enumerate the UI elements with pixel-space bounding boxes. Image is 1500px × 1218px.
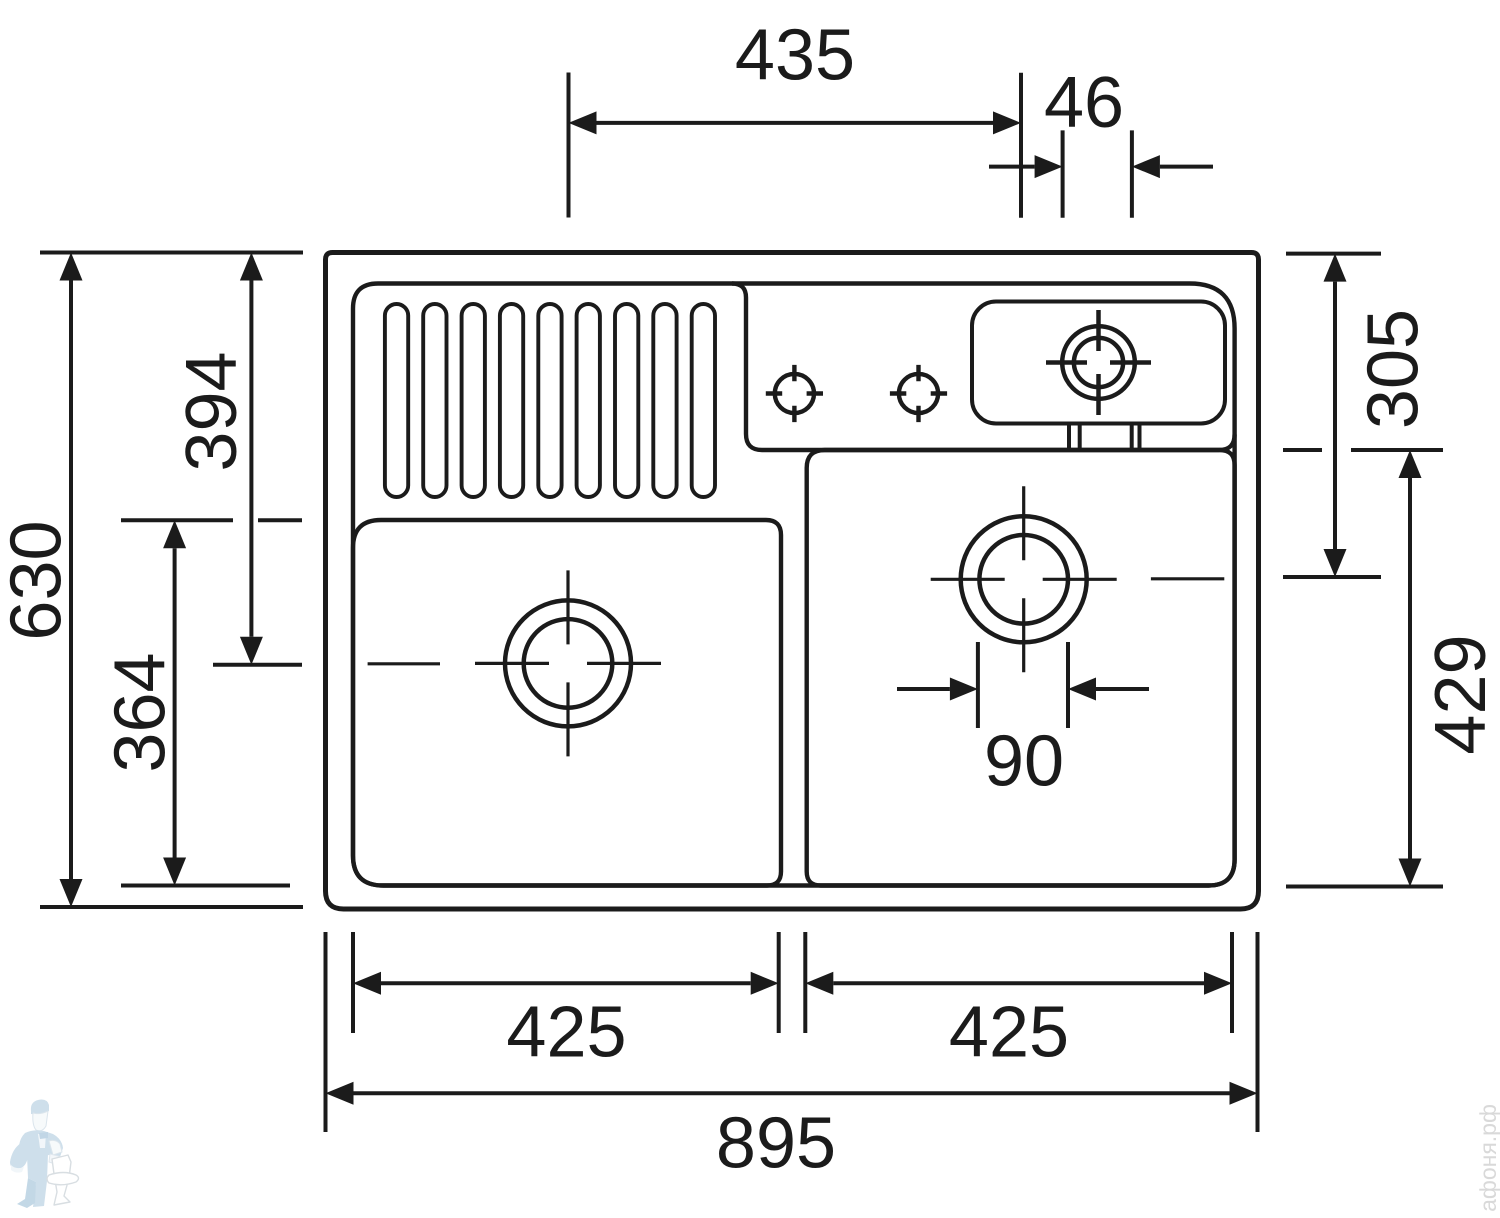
drainboard slot 6 — [577, 304, 600, 497]
dim 364: top extension tick (broken by 394 line) — [121, 518, 302, 522]
right bowl centerline dash — [1151, 577, 1224, 580]
left bowl drain crosshair — [475, 570, 661, 756]
dim 429: arrow line — [1408, 478, 1412, 859]
dim 435: right extension tick — [1019, 73, 1023, 218]
dim 305: top extension tick — [1286, 252, 1381, 256]
drainboard slot 4 — [500, 304, 523, 497]
dim 630: top extension tick — [40, 251, 303, 255]
right bowl drain crosshair — [931, 486, 1117, 672]
svg-text:394: 394 — [172, 351, 252, 471]
dim 425 right: arrow line — [833, 981, 1204, 985]
drainboard slot 5 — [538, 304, 561, 497]
dim 630: bottom extension tick — [40, 905, 303, 909]
dim 630: arrow line — [69, 281, 73, 880]
svg-text:46: 46 — [1044, 63, 1124, 143]
faucet leg lines — [1069, 425, 1140, 448]
drainboard slot 2 — [423, 304, 446, 497]
dim 90: right tick — [1066, 642, 1070, 728]
svg-text:364: 364 — [101, 652, 181, 772]
outer rim of sink — [326, 253, 1259, 910]
dim 46: right arrow — [1160, 165, 1213, 169]
svg-text:305: 305 — [1354, 309, 1434, 429]
svg-text:афоня.рф: афоня.рф — [1475, 1104, 1500, 1212]
svg-text:895: 895 — [716, 1104, 836, 1184]
small hole crosshair 1 — [775, 374, 814, 413]
left bowl — [353, 520, 781, 886]
small hole crosshair 2 — [899, 374, 938, 413]
drainboard slot 8 — [653, 304, 676, 497]
dim 90: left arrow — [897, 687, 950, 691]
svg-text:90: 90 — [984, 722, 1064, 802]
deck divider line — [732, 284, 1235, 451]
drainboard slot 3 — [462, 304, 485, 497]
faucet hole outer circle — [1062, 326, 1135, 399]
dim 46: left tick — [1061, 130, 1065, 217]
dim 435: left extension tick — [567, 73, 571, 218]
dim 46: right tick — [1130, 130, 1134, 217]
bottom dims: tall right tick — [1256, 932, 1260, 1132]
dim 305: bottom tick — [1283, 575, 1381, 579]
right bowl drain outer circle — [961, 516, 1087, 642]
faucet hole inner circle — [1074, 338, 1123, 387]
drainboard slot 1 — [385, 304, 408, 497]
dim 394: arrow line — [249, 281, 253, 637]
dim 364: bottom tick — [121, 884, 290, 888]
left bowl centerline dash — [368, 662, 440, 665]
svg-text:429: 429 — [1421, 634, 1500, 754]
dim 305: arrow line — [1333, 282, 1337, 549]
dim 895: arrow line — [354, 1091, 1230, 1095]
left bowl drain inner circle — [524, 619, 613, 708]
dim 46: left arrow — [989, 165, 1035, 169]
dim 425 left: left tick — [351, 932, 355, 1033]
dim 425 left: right tick — [777, 932, 781, 1033]
dim 425 left: arrow line — [381, 981, 751, 985]
right bowl — [807, 450, 1235, 886]
dim 425 right: left tick — [803, 932, 807, 1033]
bottom dims: tall left tick — [324, 932, 328, 1132]
watermark plumber logo — [10, 1100, 79, 1208]
drainboard slot 7 — [615, 304, 638, 497]
dim 429: mid extension tick (broken by 305 line) — [1283, 448, 1443, 452]
dim 425 right: right tick — [1230, 932, 1234, 1033]
inner rim outline — [353, 284, 1235, 886]
dim 90: right arrow — [1096, 687, 1149, 691]
dim 364: arrow line — [173, 548, 177, 857]
left bowl drain outer circle — [505, 600, 631, 726]
dim 90: left tick — [976, 642, 980, 728]
dim 435: arrow line — [597, 121, 994, 125]
dim 394: bottom tick — [213, 663, 302, 667]
faucet hole crosshair — [1046, 310, 1151, 415]
svg-text:435: 435 — [735, 16, 855, 96]
drainboard slot 9 — [692, 304, 715, 497]
right bowl drain inner circle — [979, 535, 1068, 624]
svg-text:630: 630 — [0, 520, 77, 640]
svg-text:425: 425 — [949, 993, 1069, 1073]
svg-text:425: 425 — [506, 993, 626, 1073]
faucet ledge rectangle — [972, 302, 1225, 424]
dim 429: bottom extension tick — [1286, 885, 1443, 889]
